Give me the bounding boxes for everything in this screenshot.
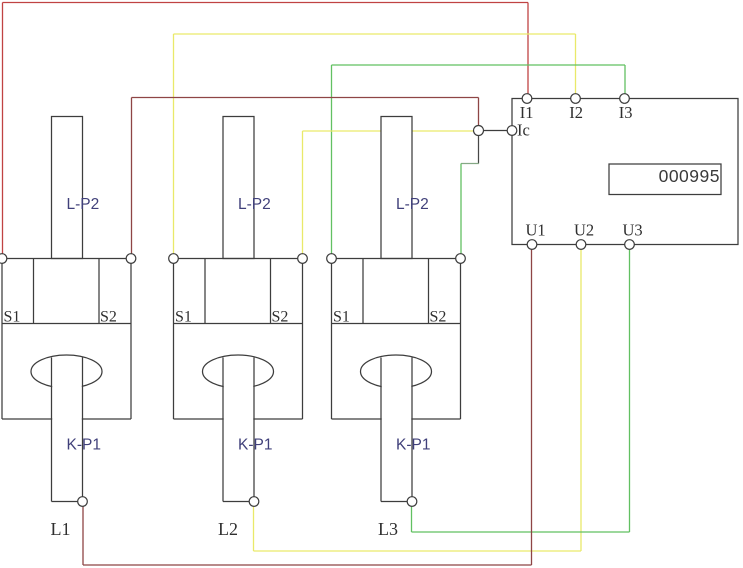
wire: yellow net CT2-S2 horizontal to junction <box>303 130 479 132</box>
wire: junction elbow horizontal (gray-green) <box>461 163 479 165</box>
svg-text:K-P1: K-P1 <box>67 437 101 454</box>
T3 primary terminal P1 (node) <box>407 497 417 507</box>
wire: yellow net top horizontal <box>174 33 576 35</box>
T2 label L-P2 <box>238 196 271 213</box>
T2 secondary terminal bar with S1/S2 cells <box>174 259 303 420</box>
T2 label S1 <box>175 309 192 326</box>
current transformer T2 primary bar L-P2 <box>223 117 254 259</box>
svg-text:S1: S1 <box>4 309 21 326</box>
meter terminal I1 (pin) <box>522 94 532 104</box>
wire: maroon net CT1-S2 riser <box>131 98 133 259</box>
T1 label S2 <box>100 309 117 326</box>
wire: junction elbow drop (dark) <box>478 134 480 164</box>
wire: green net riser to U3 <box>629 245 631 533</box>
wire: red net top horizontal <box>3 2 529 4</box>
T2 core winding ellipse <box>203 355 274 388</box>
meter terminal U2 (pin) <box>576 240 586 250</box>
T3 core winding ellipse <box>361 355 432 388</box>
T2 primary bar K-P1 <box>223 358 254 502</box>
svg-text:I3: I3 <box>619 103 633 122</box>
wire: maroon net horizontal to junction <box>132 97 479 99</box>
T1 label K-P1 <box>67 437 101 454</box>
svg-text:U2: U2 <box>574 221 594 240</box>
pin label Ic <box>517 121 530 140</box>
svg-text:L3: L3 <box>378 519 398 539</box>
wire: yellow net CT2-S2 riser <box>302 131 304 259</box>
wire: green net CT3 primary drop <box>411 503 413 532</box>
wire: yellow net bottom horizontal <box>254 550 582 552</box>
svg-text:S1: S1 <box>175 309 192 326</box>
svg-text:L-P2: L-P2 <box>67 196 100 213</box>
svg-text:Ic: Ic <box>517 121 530 140</box>
pin label U1 <box>526 221 546 240</box>
svg-text:S2: S2 <box>272 309 289 326</box>
T3 terminal S2 (node) <box>456 254 466 264</box>
T2 terminal S1 (node) <box>169 254 179 264</box>
T1 core winding ellipse <box>31 355 102 388</box>
svg-text:K-P1: K-P1 <box>238 437 272 454</box>
T3 label S1 <box>333 309 350 326</box>
wire: red net CT1-S1 to meter I1, left vertical <box>2 3 4 259</box>
pin label U2 <box>574 221 594 240</box>
pin label U3 <box>623 221 643 240</box>
wire: green net bottom horizontal <box>412 531 630 533</box>
wire: green net top horizontal <box>332 64 626 66</box>
svg-text:U3: U3 <box>623 221 643 240</box>
meter terminal I2 (pin) <box>571 94 581 104</box>
T1 primary terminal P1 (node) <box>78 497 88 507</box>
T3 primary bar K-P1 <box>381 358 412 502</box>
T2 label K-P1 <box>238 437 272 454</box>
T2 primary terminal P1 (node) <box>249 497 259 507</box>
wire: green net CT3-S1 riser <box>331 65 333 259</box>
T3 label K-P1 <box>396 437 430 454</box>
svg-text:U1: U1 <box>526 221 546 240</box>
T1 label L-P2 <box>67 196 100 213</box>
T1 terminal S1 (node) <box>0 254 7 264</box>
svg-text:S2: S2 <box>430 309 447 326</box>
T3 secondary terminal bar with S1/S2 cells <box>332 259 461 420</box>
current transformer T3 primary bar L-P2 <box>381 117 412 259</box>
meter terminal Ic (pin) <box>507 126 517 136</box>
current transformer T1 primary bar L-P2 <box>52 117 83 259</box>
T1 primary bar K-P1 <box>52 358 83 502</box>
T2 label S2 <box>272 309 289 326</box>
T1 terminal S2 (node) <box>126 254 136 264</box>
wire: maroon net riser to U1 <box>531 245 533 566</box>
meter display window <box>609 164 721 195</box>
svg-text:L2: L2 <box>218 519 238 539</box>
meter terminal U3 (pin) <box>625 240 635 250</box>
T1 secondary terminal bar with S1/S2 cells <box>2 259 131 420</box>
svg-text:I2: I2 <box>569 103 583 122</box>
pin label I2 <box>569 103 583 122</box>
svg-text:000995: 000995 <box>659 166 720 186</box>
wire: maroon net CT1 primary drop <box>82 503 84 565</box>
node L1 phase label <box>51 519 71 539</box>
wire: yellow net CT2-S1 riser <box>173 34 175 259</box>
meter terminal U1 (pin) <box>527 240 537 250</box>
wire: yellow net riser to U2 <box>580 245 582 552</box>
junction node of secondary commons <box>474 126 484 136</box>
svg-text:L-P2: L-P2 <box>238 196 271 213</box>
wire: yellow net drop to I2 <box>575 34 577 99</box>
node L2 phase label <box>218 519 238 539</box>
wire: maroon net drop to junction circle <box>478 98 480 131</box>
svg-text:K-P1: K-P1 <box>396 437 430 454</box>
wire: green net CT3-S2 riser <box>460 164 462 259</box>
T3 label S2 <box>430 309 447 326</box>
svg-text:L-P2: L-P2 <box>396 196 429 213</box>
energy meter U1 body <box>512 99 738 245</box>
pin label I1 <box>520 103 534 122</box>
wire: red net drop to I1 <box>527 3 529 99</box>
meter terminal I3 (pin) <box>620 94 630 104</box>
T3 terminal S1 (node) <box>327 254 337 264</box>
wire: black link junction to Ic <box>483 130 512 132</box>
svg-text:S1: S1 <box>333 309 350 326</box>
svg-text:L1: L1 <box>51 519 71 539</box>
wire: maroon net bottom horizontal <box>83 564 532 566</box>
svg-text:S2: S2 <box>100 309 117 326</box>
wire: yellow net CT2 primary drop <box>253 503 255 551</box>
meter display reading 000995 <box>659 166 720 186</box>
T3 label L-P2 <box>396 196 429 213</box>
wire: green net drop to I3 <box>624 65 626 99</box>
T1 label S1 <box>4 309 21 326</box>
pin label I3 <box>619 103 633 122</box>
T2 terminal S2 (node) <box>298 254 308 264</box>
svg-text:I1: I1 <box>520 103 534 122</box>
node L3 phase label <box>378 519 398 539</box>
